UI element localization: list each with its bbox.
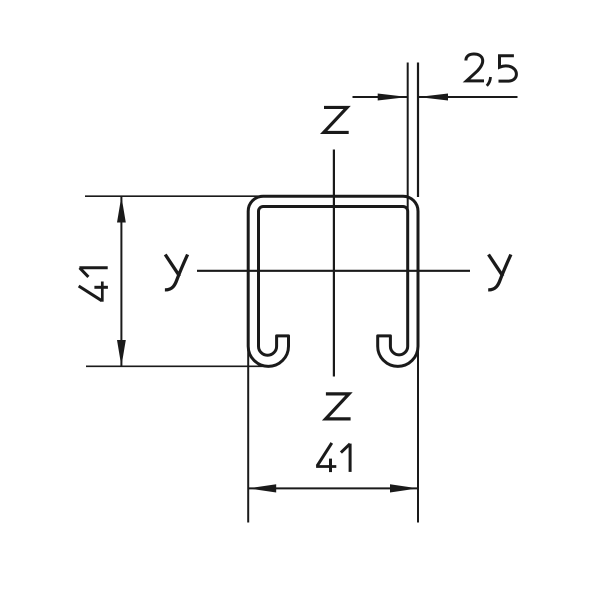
label: z bottom (326, 394, 351, 419)
extension line: bottom of 41 height dimension (86, 365, 268, 367)
label: 41 (width) (316, 443, 350, 472)
arrowhead: 2,5 left (points right) (378, 94, 408, 101)
dimension line: 41 width (bottom horizontal) (248, 487, 418, 489)
arrowhead: 41 height top (117, 196, 126, 222)
channel profile (41x41x2.5 C strut cross-section) (248, 196, 418, 366)
dimension line: 2,5 left part (353, 96, 408, 98)
dimension line: 2,5 right part (418, 96, 518, 98)
extension line: right of 41 width dimension (417, 348, 419, 523)
label: 41 (height, rotated) (79, 268, 108, 302)
label: z top (324, 107, 349, 132)
label: y right (488, 255, 511, 290)
extension line: outer face of wall for 2,5 dimension (417, 63, 419, 198)
extension line: inner face of wall for 2,5 dimension (407, 63, 409, 210)
label: 2,5 (466, 54, 517, 86)
extension line: left of 41 width dimension (247, 348, 249, 523)
centerline z-z (vertical) (333, 150, 335, 377)
label: y left (165, 255, 188, 290)
dimension line: 41 height (left vertical) (120, 196, 122, 366)
arrowhead: 41 width left (248, 484, 276, 492)
arrowhead: 41 width right (390, 484, 418, 492)
arrowhead: 41 height bottom (117, 340, 126, 366)
centerline y-y (horizontal) (197, 270, 470, 272)
extension line: top of 41 height dimension (85, 195, 262, 197)
arrowhead: 2,5 right (points left) (418, 94, 448, 101)
